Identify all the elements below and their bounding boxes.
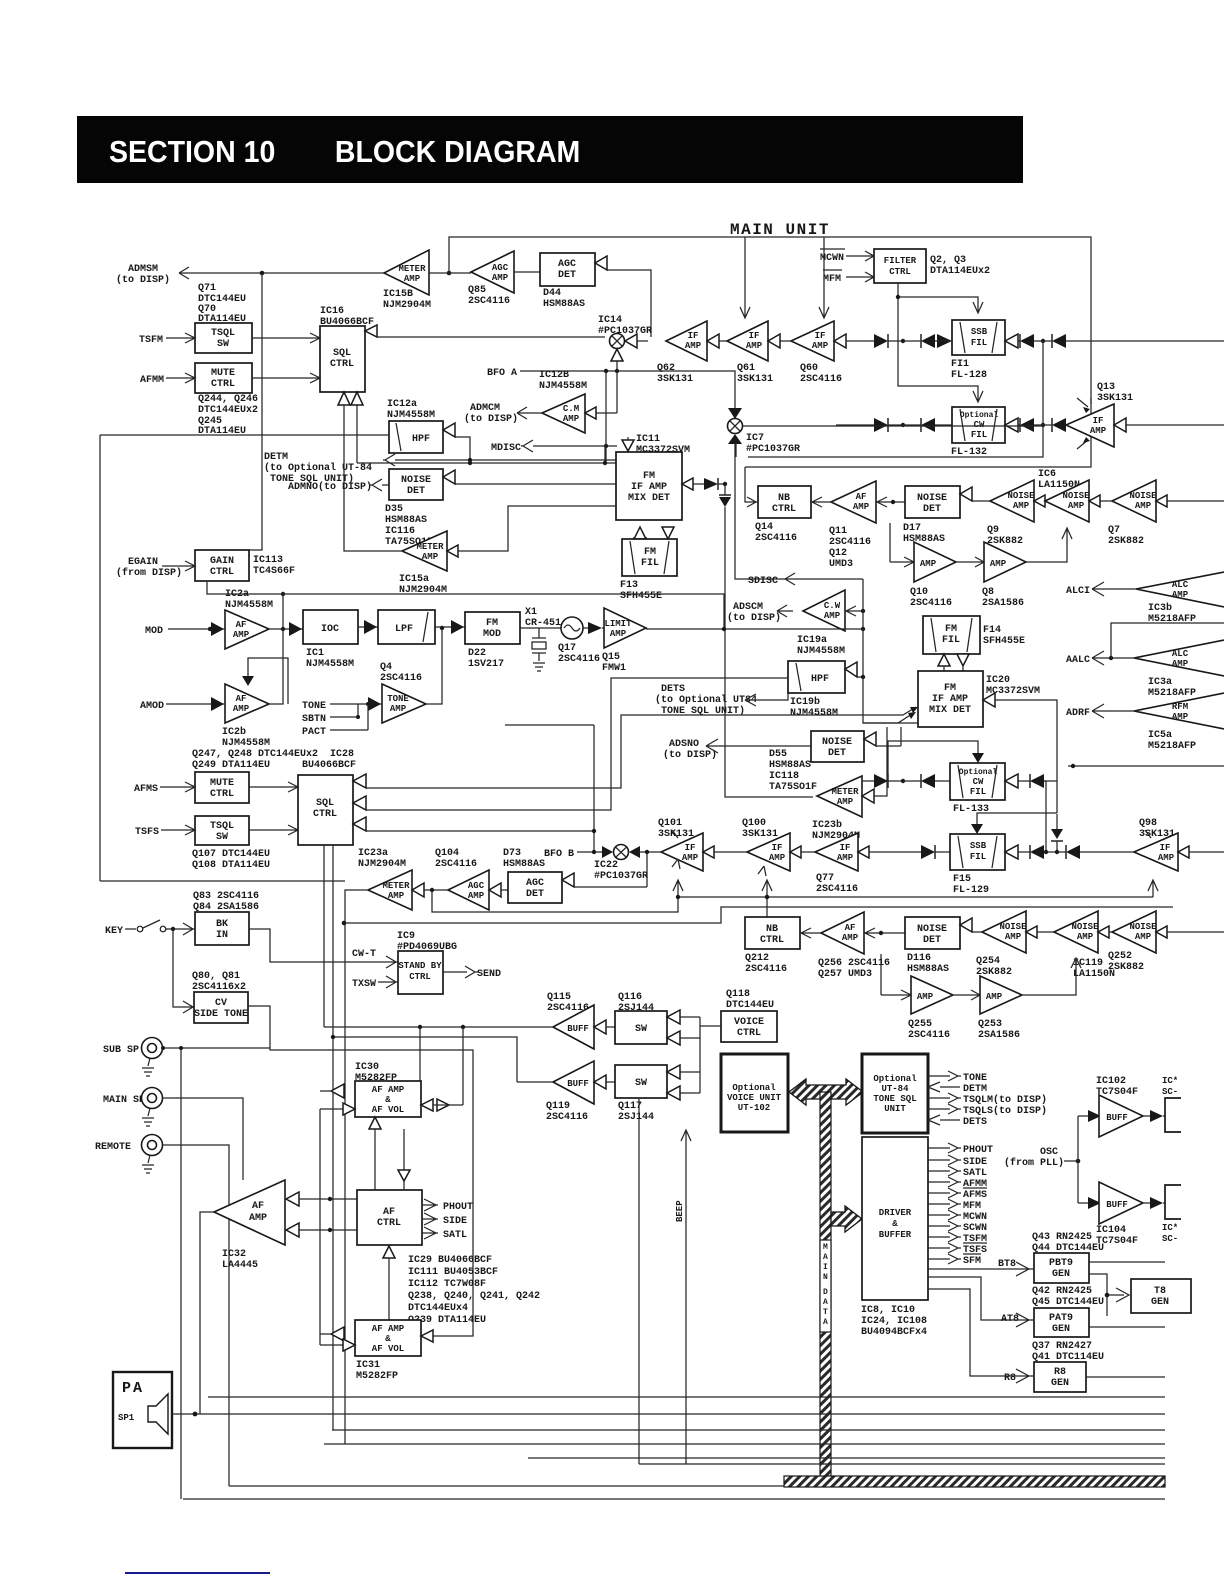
block CV SIDE TONE: [194, 992, 248, 1023]
svg-text:Optional: Optional: [959, 768, 998, 777]
svg-text:SC-: SC-: [1162, 1234, 1178, 1244]
svg-text:METER: METER: [831, 787, 859, 797]
svg-text:Optional: Optional: [960, 411, 999, 420]
wire af ctrl bottom arrow: [383, 1246, 395, 1258]
svg-text:KEY: KEY: [105, 926, 123, 937]
svg-text:IOC: IOC: [321, 624, 339, 635]
svg-text:NOISE: NOISE: [1007, 491, 1035, 501]
signal OSC from PLL: [1004, 1116, 1080, 1203]
svg-text:#PC1037GR: #PC1037GR: [746, 444, 800, 455]
svg-text:AMP: AMP: [746, 341, 763, 351]
svg-text:AMP: AMP: [1013, 501, 1030, 511]
svg-text:NB: NB: [766, 924, 778, 935]
wire IC11 top arrow: [622, 440, 634, 451]
signal KEY with switch: [105, 920, 195, 937]
svg-text:LIMIT: LIMIT: [604, 619, 632, 629]
svg-text:SFH455E: SFH455E: [983, 636, 1025, 647]
diode vertical above f15: [1051, 814, 1063, 841]
svg-text:MUTE: MUTE: [211, 368, 235, 379]
svg-text:IC12a: IC12a: [387, 399, 417, 410]
bus hatched arrow into driver: [831, 1206, 862, 1232]
svg-text:BUFF: BUFF: [567, 1079, 589, 1089]
svg-text:TONE: TONE: [302, 701, 326, 712]
svg-text:IF AMP: IF AMP: [932, 694, 968, 705]
svg-text:IC113: IC113: [253, 555, 283, 566]
svg-text:AMP: AMP: [390, 704, 407, 714]
amp AF AMP IC32: [214, 1180, 285, 1245]
svg-text:(to DISP): (to DISP): [464, 413, 518, 425]
svg-text:IC112 TC7W08F: IC112 TC7W08F: [408, 1279, 486, 1290]
block STAND BY CTRL IC9: [398, 951, 443, 994]
svg-text:2SK882: 2SK882: [1108, 536, 1144, 547]
svg-text:HSM88AS: HSM88AS: [503, 859, 545, 870]
svg-text:SFM: SFM: [963, 1256, 981, 1267]
svg-text:Q17: Q17: [558, 643, 576, 654]
svg-text:IC31: IC31: [356, 1360, 380, 1371]
svg-text:DET: DET: [923, 935, 941, 946]
svg-text:NOISE: NOISE: [917, 924, 947, 935]
block AF AMP AF VOL top IC30: [355, 1081, 421, 1117]
svg-text:Q247, Q248 DTC144EUx2: Q247, Q248 DTC144EUx2: [192, 749, 318, 760]
svg-text:AMP: AMP: [1135, 501, 1152, 511]
svg-text:MAIN SP: MAIN SP: [103, 1095, 145, 1106]
svg-text:Q12: Q12: [829, 548, 847, 559]
svg-text:2SC4116: 2SC4116: [435, 859, 477, 870]
svg-text:AMP: AMP: [853, 502, 870, 512]
svg-text:Q249 DTA114EU: Q249 DTA114EU: [192, 760, 270, 771]
svg-text:Q118: Q118: [726, 989, 750, 1000]
svg-text:LA4445: LA4445: [222, 1260, 258, 1271]
amp AMP Q253: [953, 976, 1022, 1041]
label Q107: [192, 849, 270, 871]
wire mute2/tsql2 to sql2: [249, 782, 298, 835]
label IC28: [302, 749, 356, 771]
svg-text:CW: CW: [974, 420, 985, 430]
svg-text:AMP: AMP: [249, 1213, 267, 1224]
amp NOISE AMP Q254: [976, 911, 1027, 978]
signal SDISC: [748, 573, 863, 587]
signal TONE out: [928, 1071, 987, 1084]
svg-text:ADMNO(to DISP): ADMNO(to DISP): [288, 481, 372, 493]
svg-text:Q257 UMD3: Q257 UMD3: [818, 969, 872, 980]
label IC14: [598, 315, 652, 337]
wire key to cv: [173, 929, 195, 1013]
wire ic2b to ioc path: [248, 629, 288, 704]
svg-text:AMP: AMP: [682, 853, 699, 863]
signal BFO A: [487, 368, 735, 408]
block AF CTRL: [357, 1190, 422, 1245]
svg-text:AMP: AMP: [492, 273, 509, 283]
crystal X1 CR-451: [520, 607, 561, 671]
block NOISE DET D55: [811, 731, 864, 762]
amp AGC AMP Q104: [435, 848, 489, 910]
svg-text:Q98: Q98: [1139, 818, 1157, 829]
amp BUFF Q115: [553, 1005, 594, 1049]
svg-text:CR-451: CR-451: [525, 618, 561, 629]
wire filter ctrl to fils: [898, 283, 983, 402]
svg-text:AFMM: AFMM: [140, 375, 164, 386]
svg-text:BUFFER: BUFFER: [879, 1230, 912, 1240]
svg-text:Q42 RN2425: Q42 RN2425: [1032, 1286, 1092, 1297]
svg-text:FM: FM: [486, 618, 498, 629]
amp IF AMP Q13: [1066, 398, 1114, 449]
svg-text:A: A: [823, 1318, 828, 1327]
svg-text:IC104: IC104: [1096, 1225, 1126, 1236]
block NB CTRL Q14: [755, 486, 811, 544]
svg-text:TC4S66F: TC4S66F: [253, 566, 295, 577]
signal TXSW: [352, 976, 398, 990]
wire IF line into SQL arrow: [365, 325, 377, 337]
wire pat9 out: [1089, 1326, 1165, 1328]
svg-text:AMP: AMP: [842, 933, 859, 943]
svg-text:TA75SO1F: TA75SO1F: [769, 782, 817, 793]
svg-text:Q13: Q13: [1097, 382, 1115, 393]
signal MCWN: [820, 249, 874, 264]
bus hatched arrow UT102-UT84: [789, 1079, 863, 1105]
svg-text:Q253: Q253: [978, 1019, 1002, 1030]
block T8 GEN: [1131, 1279, 1191, 1313]
svg-text:IC24, IC108: IC24, IC108: [861, 1316, 927, 1327]
amp METER AMP IC15a: [399, 531, 447, 596]
signal MFM: [823, 270, 874, 285]
signal ADMCM: [464, 403, 542, 425]
wire agc loop under: [432, 880, 1158, 912]
svg-text:TSQLS(to DISP): TSQLS(to DISP): [963, 1105, 1047, 1117]
svg-text:AMP: AMP: [917, 992, 934, 1002]
svg-text:IC22: IC22: [594, 860, 618, 871]
svg-text:IC2b: IC2b: [222, 726, 246, 738]
signal ALCI: [1066, 582, 1136, 597]
svg-text:IF: IF: [1160, 843, 1171, 853]
svg-text:IC116: IC116: [385, 526, 415, 537]
svg-text:A: A: [823, 1253, 828, 1262]
svg-text:BU4094BCFx4: BU4094BCFx4: [861, 1327, 927, 1338]
wire NB loop top: [736, 442, 758, 507]
wire sub sp down: [180, 1048, 182, 1499]
svg-text:PA: PA: [122, 1380, 144, 1397]
signal MCWN: [928, 1210, 987, 1223]
diodes after SSB FIL: [1005, 334, 1018, 348]
signal AFMM: [928, 1177, 987, 1190]
svg-text:PHOUT: PHOUT: [443, 1202, 473, 1213]
diode pair before SSB FIL: [862, 334, 903, 348]
svg-text:NJM4558M: NJM4558M: [539, 381, 587, 392]
signal BFO B: [544, 849, 604, 860]
svg-text:AF VOL: AF VOL: [372, 1344, 404, 1354]
svg-text:SC-: SC-: [1162, 1087, 1178, 1097]
svg-text:ALC: ALC: [1172, 580, 1189, 590]
svg-text:FL-129: FL-129: [953, 885, 989, 896]
svg-text:NJM4558M: NJM4558M: [225, 600, 273, 611]
svg-text:2SK882: 2SK882: [1108, 962, 1144, 973]
block NOISE DET D17: [903, 486, 960, 545]
svg-text:AMP: AMP: [610, 629, 627, 639]
svg-text:FIL: FIL: [971, 338, 987, 348]
svg-text:AMP: AMP: [812, 341, 829, 351]
svg-text:NJM4558M: NJM4558M: [222, 738, 270, 749]
signal SATL: [928, 1166, 987, 1179]
svg-text:2SA1586: 2SA1586: [978, 1030, 1020, 1041]
amp IF AMP Q100: [747, 833, 790, 876]
svg-text:AMP: AMP: [837, 797, 854, 807]
label IC6: [1038, 469, 1080, 491]
svg-text:NOISE: NOISE: [1071, 922, 1099, 932]
amp TONE AMP Q4: [380, 662, 426, 723]
signal SCWN: [928, 1221, 987, 1234]
signal ADSCM: [727, 602, 793, 624]
svg-text:AF: AF: [236, 694, 247, 704]
svg-text:BK: BK: [216, 919, 228, 930]
svg-text:IC111 BU4053BCF: IC111 BU4053BCF: [408, 1267, 498, 1278]
svg-text:3SK131: 3SK131: [657, 374, 693, 385]
amp IF AMP Q61: [727, 321, 773, 385]
label Q100: [742, 818, 778, 840]
filter FM FIL F14: [923, 616, 1025, 671]
svg-text:Q255: Q255: [908, 1019, 932, 1030]
svg-text:MIX DET: MIX DET: [929, 705, 971, 716]
svg-text:ADSCM: ADSCM: [733, 602, 763, 613]
svg-text:IC3b: IC3b: [1148, 602, 1172, 614]
svg-text:AMOD: AMOD: [140, 701, 164, 712]
signal DETM in: [928, 1082, 987, 1095]
svg-text:IC15B: IC15B: [383, 289, 413, 300]
svg-text:FMW1: FMW1: [602, 663, 626, 674]
svg-text:CTRL: CTRL: [211, 379, 235, 390]
label Q42: [1032, 1286, 1104, 1308]
svg-text:TSQLM(to DISP): TSQLM(to DISP): [963, 1094, 1047, 1106]
svg-text:IC20: IC20: [986, 675, 1010, 686]
signal AFMM: [140, 373, 195, 386]
svg-text:FIL: FIL: [970, 852, 986, 862]
wire into Q62 from FILTER line down: [740, 237, 750, 318]
svg-text:FIL: FIL: [970, 787, 986, 797]
block DRIVER BUFFER: [862, 1137, 928, 1300]
svg-text:MIX DET: MIX DET: [628, 493, 670, 504]
label Q80: [192, 971, 246, 993]
amp METER AMP IC23a: [358, 848, 412, 910]
signal EGAIN: [116, 557, 195, 579]
amp NOISE AMP IC6: [1045, 480, 1090, 522]
block FM IF AMP MIX DET IC20: [918, 671, 983, 727]
svg-text:IC1: IC1: [306, 648, 324, 659]
amp METER AMP IC23b: [812, 776, 862, 842]
svg-text:AMP: AMP: [1135, 932, 1152, 942]
svg-text:HSM88AS: HSM88AS: [385, 515, 427, 526]
svg-text:SECTION 10: SECTION 10: [109, 135, 275, 169]
svg-text:NOISE: NOISE: [1129, 922, 1157, 932]
label IC31: [356, 1360, 398, 1382]
svg-text:FM: FM: [945, 624, 957, 635]
svg-text:3SK131: 3SK131: [742, 829, 778, 840]
svg-text:2SC4116: 2SC4116: [380, 673, 422, 684]
svg-text:NOISE: NOISE: [1062, 491, 1090, 501]
filter Optional CW FIL FL-133: [888, 741, 1005, 815]
label IC8 IC10: [861, 1305, 927, 1338]
svg-text:LPF: LPF: [395, 624, 413, 635]
svg-text:IC9: IC9: [397, 931, 415, 942]
svg-text:METER: METER: [416, 542, 444, 552]
label IC12a: [387, 399, 435, 421]
svg-text:IC102: IC102: [1096, 1076, 1126, 1087]
signal TSQLS: [928, 1104, 1047, 1117]
signal TONE SBTN PACT: [302, 697, 382, 738]
mixer IC7: [728, 408, 801, 579]
svg-text:DTC144EU: DTC144EU: [726, 1000, 774, 1011]
signal PHOUT: [928, 1143, 993, 1156]
signal AMOD: [140, 697, 225, 712]
svg-text:Q108 DTA114EU: Q108 DTA114EU: [192, 860, 270, 871]
svg-text:F13: F13: [620, 580, 638, 591]
svg-text:IF: IF: [1093, 416, 1104, 426]
amp AF AMP IC2b: [222, 684, 270, 749]
block R8 GEN: [1034, 1362, 1086, 1392]
svg-text:NOISE: NOISE: [1129, 491, 1157, 501]
amp BUFF IC102: [1078, 1095, 1165, 1137]
svg-text:FL-133: FL-133: [953, 804, 989, 815]
svg-text:Q62: Q62: [657, 363, 675, 374]
wire SQL bottom arrows: [338, 392, 350, 405]
svg-text:2SJ144: 2SJ144: [618, 1112, 654, 1123]
svg-text:F15: F15: [953, 874, 971, 885]
signal TSQLM: [928, 1093, 1047, 1106]
block GAIN CTRL IC113: [195, 550, 295, 581]
svg-text:CTRL: CTRL: [330, 359, 354, 370]
signal AFMS: [134, 782, 195, 795]
svg-text:HSM88AS: HSM88AS: [907, 964, 949, 975]
svg-text:CTRL: CTRL: [210, 567, 234, 578]
svg-text:AMP: AMP: [1077, 932, 1094, 942]
svg-text:TXSW: TXSW: [352, 979, 376, 990]
signal TSFM: [139, 333, 195, 346]
svg-text:2SC4116: 2SC4116: [800, 374, 842, 385]
label Q43: [1032, 1232, 1104, 1254]
wire cv out: [248, 1006, 473, 1336]
svg-text:AF: AF: [236, 620, 247, 630]
signal ADRF: [1066, 704, 1134, 719]
block AGC DET D44: [540, 253, 595, 310]
label Q119: [546, 1101, 588, 1123]
svg-text:IC30: IC30: [355, 1062, 379, 1073]
svg-text:Q238, Q240, Q241, Q242: Q238, Q240, Q241, Q242: [408, 1291, 540, 1302]
svg-text:Q8: Q8: [982, 587, 994, 598]
svg-text:Q45 DTC144EU: Q45 DTC144EU: [1032, 1297, 1104, 1308]
block SW Q116: [615, 1011, 667, 1044]
block Optional UT-84 TONE SQL UNIT: [862, 1054, 928, 1133]
svg-text:AFMS: AFMS: [963, 1190, 987, 1201]
label Q13: [1097, 382, 1133, 404]
amp METER AMP IC15B: [383, 250, 431, 311]
svg-text:AMP: AMP: [1090, 426, 1107, 436]
amp RFM AMP IC5a: [1134, 693, 1224, 752]
svg-text:VOICE: VOICE: [734, 1017, 764, 1028]
signal R8: [928, 1289, 1034, 1384]
svg-text:ADSNO: ADSNO: [669, 739, 699, 750]
svg-text:SIDE TONE: SIDE TONE: [194, 1009, 248, 1020]
svg-text:DTC144EUx4: DTC144EUx4: [408, 1303, 468, 1314]
label Q101: [658, 818, 694, 840]
svg-text:(from DISP): (from DISP): [116, 567, 182, 579]
diodes after CW FIL FL133: [1005, 774, 1018, 788]
svg-text:IC11: IC11: [636, 434, 660, 445]
svg-text:BT8: BT8: [998, 1259, 1016, 1270]
oscillator Q17: [558, 617, 600, 665]
svg-text:TONE SQL: TONE SQL: [873, 1094, 916, 1104]
svg-text:FM: FM: [643, 471, 655, 482]
wire agc det input: [595, 256, 607, 270]
svg-text:DETM: DETM: [963, 1084, 987, 1095]
svg-text:#PC1037GR: #PC1037GR: [598, 326, 652, 337]
wire mix det right arrow + diode: [682, 478, 693, 490]
svg-text:GEN: GEN: [1052, 1324, 1070, 1335]
label IC12B: [539, 370, 587, 392]
svg-text:FIL: FIL: [942, 635, 960, 646]
svg-text:TSQL: TSQL: [210, 821, 234, 832]
svg-text:D55: D55: [769, 749, 787, 760]
svg-text:2SC4116: 2SC4116: [468, 296, 510, 307]
svg-text:&: &: [385, 1334, 391, 1344]
svg-text:AMP: AMP: [1172, 659, 1189, 669]
wire cwfil133 vertical right: [1044, 781, 1046, 852]
svg-text:DETS: DETS: [661, 684, 685, 695]
amp AF AMP Q256: [800, 912, 890, 980]
wire Q13 gate from border: [1090, 398, 1092, 404]
wire af amp out: [269, 628, 303, 630]
svg-text:Q77: Q77: [816, 873, 834, 884]
svg-text:SBTN: SBTN: [302, 714, 326, 725]
signal CW-T: [352, 949, 376, 960]
amp BUFF IC104: [1078, 1182, 1165, 1224]
svg-text:IC*: IC*: [1162, 1076, 1178, 1086]
svg-text:HPF: HPF: [811, 674, 829, 685]
svg-text:AMP: AMP: [1068, 501, 1085, 511]
svg-text:2SC4116: 2SC4116: [829, 537, 871, 548]
svg-text:SQL: SQL: [316, 798, 334, 809]
svg-text:NJM4558M: NJM4558M: [797, 646, 845, 657]
label IC9: [397, 931, 457, 953]
svg-text:MOD: MOD: [483, 629, 501, 640]
svg-text:SSB: SSB: [971, 327, 988, 337]
svg-text:Q7: Q7: [1108, 525, 1120, 536]
svg-text:AMP: AMP: [920, 559, 937, 569]
svg-text:AMP: AMP: [563, 414, 580, 424]
svg-text:UT-84: UT-84: [881, 1084, 909, 1094]
svg-text:Q212: Q212: [745, 953, 769, 964]
svg-text:FM: FM: [644, 547, 656, 558]
wire Q8 out to noise amp2: [1026, 528, 1072, 562]
ADMSM output arrow: [116, 264, 384, 286]
svg-text:IC19a: IC19a: [797, 635, 827, 646]
diode pair before CW FIL FL133: [874, 774, 903, 788]
svg-text:GEN: GEN: [1151, 1297, 1169, 1308]
svg-text:C.W: C.W: [824, 601, 841, 611]
block HPF IC19b: [788, 661, 845, 719]
svg-text:IC3a: IC3a: [1148, 677, 1172, 688]
block MUTE CTRL: [195, 363, 252, 393]
svg-text:(to DISP): (to DISP): [116, 274, 170, 286]
svg-text:2SC4116: 2SC4116: [816, 884, 858, 895]
svg-text:DTC144EUx2: DTC144EUx2: [198, 405, 258, 416]
svg-text:CV: CV: [215, 998, 227, 1009]
svg-text:STAND BY: STAND BY: [398, 961, 442, 971]
label IC20: [986, 675, 1040, 697]
svg-text:REMOTE: REMOTE: [95, 1142, 131, 1153]
svg-text:AGC: AGC: [558, 259, 576, 270]
svg-text:CTRL: CTRL: [210, 789, 234, 800]
svg-text:IC15a: IC15a: [399, 574, 429, 585]
signal AFMS: [928, 1188, 987, 1201]
block PAT9 GEN: [1034, 1308, 1089, 1337]
svg-text:#PC1037GR: #PC1037GR: [594, 871, 648, 882]
